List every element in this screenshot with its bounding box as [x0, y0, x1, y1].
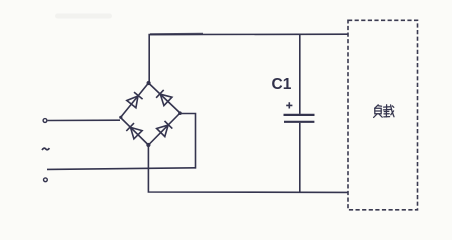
faint scan smear top-left [55, 14, 112, 19]
capacitor C1 lead top [299, 34, 301, 114]
terminal J1 (AC input top) [43, 119, 47, 123]
node bottom junction [146, 143, 150, 147]
glyph 负 [374, 105, 383, 118]
bridge arm bottom-right [148, 113, 180, 145]
capacitor C1 plates [284, 114, 315, 116]
diode D3 [126, 123, 142, 139]
svg-text:C1: C1 [272, 76, 292, 93]
diode D1 [127, 92, 143, 108]
glyph 载 [383, 105, 394, 117]
wire J2 to bridge right node (lower horizontal) [47, 168, 196, 170]
capacitor C1 lead bottom [299, 123, 301, 193]
label 负载 (drawn strokes) [374, 105, 394, 118]
terminal J2 (AC input bottom) [44, 178, 48, 182]
bridge arm top-left [121, 83, 149, 118]
node top junction [147, 81, 151, 85]
wire right node drop [180, 114, 196, 169]
node right junction [178, 111, 182, 115]
wire top rail darker segment [150, 33, 203, 36]
node left junction [119, 116, 122, 119]
wire J1 to bridge left node [48, 119, 120, 121]
diode D4 [157, 121, 173, 137]
bridge arm top-right [149, 83, 181, 113]
diode D2 [156, 90, 172, 106]
AC symbol ~ [42, 148, 49, 150]
bridge arm bottom-left [121, 118, 149, 146]
wire top rail [149, 34, 348, 83]
load box dashed [348, 20, 418, 210]
plus sign of C1 [286, 102, 292, 108]
wire bottom rail [148, 145, 348, 192]
